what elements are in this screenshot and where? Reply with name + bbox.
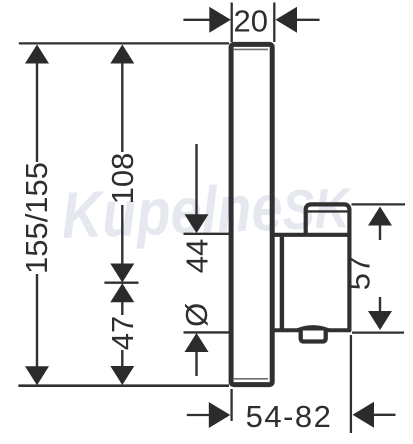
dim 108 <box>110 45 134 64</box>
watermark <box>60 168 353 252</box>
svg-text:54-82: 54-82 <box>246 399 333 434</box>
handle cap and right edge <box>306 204 350 331</box>
svg-text:108: 108 <box>105 153 140 205</box>
top reference line <box>19 42 229 44</box>
dim 47 <box>110 283 134 302</box>
svg-text:44: 44 <box>180 239 215 273</box>
dim 54-82 <box>230 389 232 421</box>
handle grip bottom line <box>273 328 352 332</box>
dim 57 <box>352 203 406 205</box>
svg-text:155/155: 155/155 <box>19 162 54 274</box>
svg-text:47: 47 <box>105 316 140 350</box>
handle grip top line <box>273 233 350 237</box>
dim 44 / diameter <box>195 144 197 215</box>
cap groove line <box>308 210 348 212</box>
svg-text:20: 20 <box>233 3 267 38</box>
bottom reference line <box>18 384 229 387</box>
dim 155/155 <box>25 45 49 64</box>
handle grip left edge <box>280 235 284 330</box>
wall plate <box>231 44 272 384</box>
svg-text:Ø: Ø <box>179 303 214 327</box>
bottom tab <box>301 331 326 342</box>
bump arc over tab <box>298 327 329 330</box>
svg-text:57: 57 <box>342 256 377 290</box>
plate inner top line <box>234 48 268 50</box>
dim 20 <box>231 3 233 43</box>
plate inner bottom line <box>234 378 268 380</box>
